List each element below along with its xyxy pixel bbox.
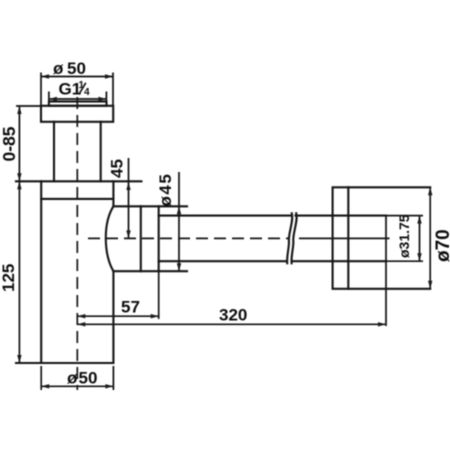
dimension 0-85 vertical line: [17, 106, 21, 181]
compression nut right edge: [158, 206, 160, 271]
outlet pipe bottom edge left of break: [159, 260, 287, 262]
svg-text:45: 45: [108, 159, 127, 178]
pipe break left curve: [287, 213, 292, 263]
compression nut left edge: [140, 206, 142, 271]
elbow curve on bottle: [106, 206, 114, 271]
inlet pipe left wall: [53, 122, 55, 182]
top plate of inlet fitting: [49, 102, 107, 106]
svg-text:0-85: 0-85: [0, 126, 19, 161]
inlet pipe right wall: [100, 122, 102, 182]
wall flange top extension line: [348, 186, 430, 188]
dimension line ⌀50 top: [41, 74, 113, 78]
svg-text:ø70: ø70: [433, 229, 450, 262]
dimension 45 vertical line: [126, 158, 130, 238]
dimension ⌀31.75 extension top: [386, 215, 423, 217]
wall flange front plate: [333, 187, 349, 288]
dimension ⌀45 vertical line: [177, 172, 181, 271]
svg-text:320: 320: [219, 306, 247, 325]
svg-text:50: 50: [67, 59, 86, 78]
dimension 125 vertical line: [17, 181, 21, 363]
dimension line G1 1/4 thread: [49, 92, 107, 104]
top flange: [41, 106, 113, 122]
vertical centerline: [76, 97, 78, 390]
svg-text:125: 125: [0, 264, 18, 292]
bottle right wall upper: [112, 181, 114, 206]
svg-text:ø: ø: [53, 59, 64, 78]
elbow bottom edge with extension: [113, 270, 187, 272]
svg-text:ø45: ø45: [156, 173, 175, 207]
svg-text:ø31.75: ø31.75: [396, 214, 412, 258]
svg-text:4: 4: [84, 87, 90, 98]
outlet pipe top edge left of break: [159, 215, 291, 217]
dimension label G1 1/4: [59, 80, 91, 99]
bottle bottom edge with extension line: [16, 362, 113, 364]
flange top extension line to left: [16, 105, 41, 107]
dimension ⌀70 line: [428, 187, 432, 288]
outlet pipe top edge right of break: [296, 215, 387, 217]
dimension label ⌀50 top: [53, 59, 86, 78]
dimension line ⌀50 bottom: [41, 366, 113, 390]
bottle left wall: [40, 181, 42, 363]
svg-text:50: 50: [79, 368, 98, 387]
extension line right of ⌀50 top: [112, 73, 114, 106]
horizontal centerline solid: [299, 237, 390, 239]
bottle top edge with extension line: [16, 180, 141, 182]
dimension 320 line: [77, 322, 386, 326]
dimension ⌀31.75 extension bottom: [386, 260, 423, 262]
extension line for 57: [158, 271, 160, 319]
bottle right wall lower: [112, 271, 114, 363]
extension line left of ⌀50 top: [40, 73, 42, 106]
wall flange bottom extension line: [348, 288, 430, 290]
horizontal centerline dashed: [88, 237, 290, 239]
pipe break right curve: [292, 213, 297, 263]
dimension ⌀31.75 line: [417, 216, 421, 262]
outlet pipe bottom edge right of break: [292, 260, 387, 262]
elbow top edge with extension: [113, 205, 187, 207]
svg-text:ø: ø: [67, 368, 78, 387]
pipe end vertical and flange centerline: [385, 216, 387, 326]
bottle ring bottom line: [41, 198, 113, 200]
svg-text:57: 57: [121, 298, 140, 317]
dimension 57 line: [77, 314, 158, 318]
